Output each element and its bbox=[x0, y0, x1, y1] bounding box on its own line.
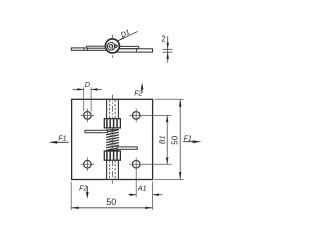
barrel bore dashed line right (upper) bbox=[114, 100, 116, 119]
dimension 50 right (height) bbox=[155, 99, 184, 179]
left leaf plate (side view) bbox=[71, 48, 112, 50]
svg-text:2: 2 bbox=[161, 34, 165, 43]
holes with centerlines bbox=[81, 109, 172, 197]
dimension B1 (right holes spacing) bbox=[166, 115, 168, 164]
spring right leg (side view bar) bbox=[117, 46, 139, 48]
top view: side elevation of hinge bbox=[71, 32, 152, 58]
spring left leg (side view bar) bbox=[87, 46, 109, 48]
spring wire end circle bbox=[114, 45, 117, 48]
barrel pin circle bbox=[107, 43, 115, 51]
dimension D (hole diameter, top left) bbox=[73, 87, 102, 111]
leader line D1 bbox=[118, 32, 138, 41]
svg-text:F2: F2 bbox=[134, 90, 142, 97]
spring coil (main view) bbox=[106, 130, 119, 151]
barrel tube lower: left edge bbox=[106, 160, 108, 179]
barrel tube upper: right edge bbox=[117, 99, 119, 118]
svg-text:50: 50 bbox=[106, 197, 116, 207]
hole top-left bbox=[84, 112, 92, 120]
hole bottom-right bbox=[132, 160, 140, 168]
main front view bbox=[72, 95, 153, 184]
barrel tube upper: left edge bbox=[106, 99, 108, 118]
dimension A1 (bottom right) bbox=[128, 194, 162, 196]
wire: dim2 extension bottom bbox=[163, 51, 173, 53]
lower knuckle block hatched bbox=[104, 151, 120, 160]
svg-text:D: D bbox=[85, 80, 90, 89]
svg-text:50: 50 bbox=[170, 135, 179, 144]
hole tick on right leaf bbox=[136, 49, 138, 52]
barrel bore dashed line right (lower) bbox=[114, 160, 116, 179]
wire: dim2 vertical line bbox=[167, 36, 169, 62]
wire: barrel vertical centerline (top view) bbox=[111, 35, 113, 58]
spring right leg (main view) bbox=[117, 147, 137, 149]
hinge plate square outline bbox=[72, 99, 153, 179]
svg-text:A1: A1 bbox=[137, 186, 147, 193]
barrel outer circle bbox=[105, 39, 119, 53]
dimension 2 (plate thickness) bbox=[163, 36, 173, 62]
svg-text:B1: B1 bbox=[159, 135, 166, 144]
barrel pin bore bbox=[109, 45, 113, 49]
upper knuckle block hatched bbox=[104, 119, 120, 128]
hole top-right bbox=[132, 112, 140, 120]
wire: centerline tick below plate bbox=[111, 181, 113, 184]
hole bottom-left bbox=[84, 160, 92, 168]
wire: barrel vertical centerline (main view) bbox=[111, 95, 113, 180]
svg-text:D1: D1 bbox=[119, 27, 131, 39]
barrel bore dashed line left (upper) bbox=[109, 100, 111, 119]
wire: dim2 extension top bbox=[163, 48, 173, 50]
hole tick on left leaf bbox=[83, 48, 85, 51]
arrowhead down to plate top bbox=[167, 43, 169, 50]
arrowhead up to plate bottom bbox=[167, 52, 169, 59]
svg-text:F2: F2 bbox=[79, 185, 87, 192]
dimension 50 bottom (width) bbox=[71, 182, 152, 210]
right leaf plate (side view) bbox=[112, 49, 153, 52]
barrel tube lower: right edge bbox=[117, 160, 119, 179]
spring left leg (main view) bbox=[85, 130, 108, 132]
barrel bore dashed line left (lower) bbox=[109, 160, 111, 179]
wire: barrel horizontal centerline (top view) bbox=[103, 45, 121, 47]
svg-text:F1: F1 bbox=[58, 135, 66, 142]
leader arrowhead D1 bbox=[117, 37, 124, 42]
